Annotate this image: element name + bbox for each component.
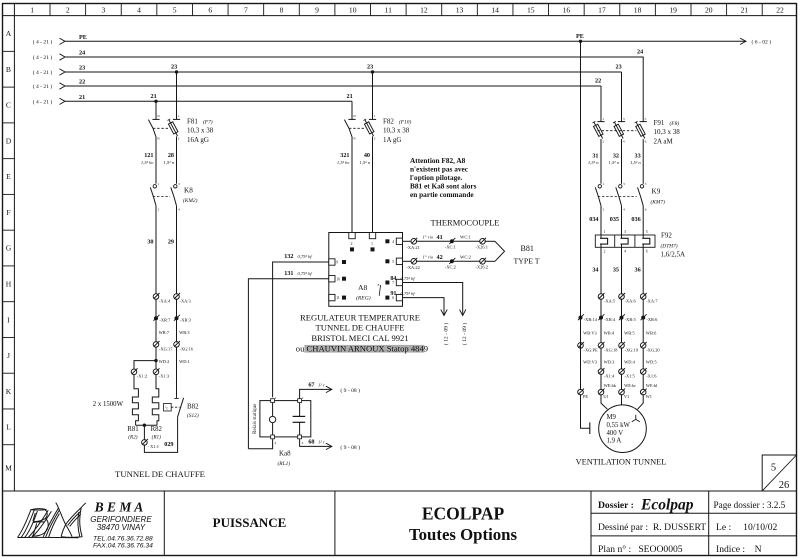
svg-text:THERMOCOUPLE: THERMOCOUPLE — [431, 217, 500, 227]
motor M9 — [599, 405, 647, 453]
svg-text:-XR:14: -XR:14 — [584, 317, 598, 322]
svg-text:-XR:6: -XR:6 — [646, 317, 658, 322]
svg-text:N: N — [353, 114, 356, 118]
svg-text:WC:2: WC:2 — [460, 255, 472, 260]
svg-text:-X1:6: -X1:6 — [646, 374, 657, 379]
svg-text:1,5² bc: 1,5² bc — [337, 160, 350, 166]
svg-text:3: 3 — [623, 117, 625, 121]
svg-text:034: 034 — [589, 216, 598, 223]
svg-text:4: 4 — [623, 140, 625, 144]
svg-text:1° rio: 1° rio — [423, 235, 434, 240]
svg-text:8: 8 — [378, 283, 380, 287]
svg-text:PE: PE — [79, 34, 87, 41]
svg-text:5: 5 — [645, 117, 647, 121]
svg-text:2: 2 — [602, 140, 604, 144]
svg-text:28: 28 — [168, 152, 174, 159]
svg-text:-X1:2: -X1:2 — [137, 374, 147, 379]
wire 42 — [403, 260, 411, 262]
terminal -XG:16 — [174, 342, 180, 348]
node 23 tap F81 — [175, 70, 178, 73]
svg-text:(F8): (F8) — [670, 120, 680, 127]
svg-text:VENTILATION TUNNEL: VENTILATION TUNNEL — [576, 457, 667, 466]
terminal -X1:2 — [131, 369, 137, 375]
wire 121 — [155, 140, 157, 184]
wire PE drop — [580, 41, 582, 389]
svg-text:1,5² bc: 1,5² bc — [141, 160, 154, 166]
svg-text:0,55 kW: 0,55 kW — [607, 422, 631, 429]
svg-text:2: 2 — [302, 396, 304, 400]
svg-text:°c: °c — [165, 406, 169, 410]
svg-text:1: 1 — [604, 230, 606, 234]
svg-text:2 x 1500W: 2 x 1500W — [93, 401, 124, 408]
svg-text:1° rio: 1° rio — [423, 255, 434, 260]
wire 40 — [372, 140, 374, 233]
node -XC:1 — [454, 240, 480, 242]
svg-text:9: 9 — [315, 6, 319, 15]
svg-text:6: 6 — [645, 140, 647, 144]
node -XR:14 — [579, 316, 583, 320]
wire 29 — [176, 208, 178, 295]
svg-text:10: 10 — [349, 6, 357, 15]
svg-text:22: 22 — [776, 6, 784, 15]
svg-text:WR:7: WR:7 — [159, 330, 170, 335]
node -XR:6 — [641, 316, 645, 320]
wire 034 — [600, 208, 602, 236]
svg-text:TUNNEL DE CHAUFFE: TUNNEL DE CHAUFFE — [115, 469, 205, 479]
terminal -X1:4 — [598, 369, 604, 375]
svg-text:N: N — [157, 114, 160, 118]
svg-text:24: 24 — [637, 49, 643, 56]
svg-text:1² r: 1² r — [318, 440, 325, 445]
svg-text:2: 2 — [351, 242, 353, 246]
svg-text:D: D — [6, 136, 12, 145]
svg-text:ECOLPAP: ECOLPAP — [422, 504, 505, 524]
svg-text:-XR:5: -XR:5 — [625, 317, 637, 322]
terminal -XA:7 — [640, 294, 646, 300]
terminal -XA:4 — [153, 294, 159, 300]
svg-text:23: 23 — [171, 64, 177, 71]
svg-text:-XR:3: -XR:3 — [180, 318, 192, 323]
svg-text:24: 24 — [79, 50, 85, 57]
wire 036 — [642, 208, 644, 236]
svg-text:WD:V3: WD:V3 — [583, 359, 598, 364]
svg-text:WB:5: WB:5 — [624, 331, 635, 336]
svg-text:91: 91 — [390, 290, 396, 297]
node -XR:4 — [599, 316, 603, 320]
svg-text:1,5² n: 1,5² n — [588, 160, 599, 166]
svg-text:K: K — [6, 387, 12, 396]
svg-text:( 4 - 21 ): ( 4 - 21 ) — [33, 83, 53, 90]
terminal V1 — [619, 389, 625, 395]
wire 84 — [403, 283, 463, 315]
svg-text:4: 4 — [624, 250, 626, 254]
svg-text:21: 21 — [79, 94, 85, 101]
svg-text:(REG): (REG) — [356, 295, 371, 302]
svg-text:PUISSANCE: PUISSANCE — [213, 515, 287, 530]
terminal W1 — [640, 389, 646, 395]
svg-text:16: 16 — [563, 6, 571, 15]
svg-text:6: 6 — [646, 250, 648, 254]
svg-text:Dossier :: Dossier : — [598, 500, 634, 511]
svg-text:1: 1 — [158, 182, 160, 186]
terminal -XG:18 — [598, 343, 604, 349]
svg-text:(DTH7): (DTH7) — [661, 242, 678, 249]
svg-text:4: 4 — [623, 208, 625, 212]
svg-text:-XA:7: -XA:7 — [646, 299, 658, 304]
svg-text:Toutes Options: Toutes Options — [409, 525, 517, 544]
svg-text:B: B — [6, 65, 11, 74]
svg-text:- X1:1: - X1:1 — [148, 444, 159, 449]
svg-text:-XG:16: -XG:16 — [180, 347, 194, 352]
svg-text:11: 11 — [336, 296, 340, 300]
svg-text:Ka8: Ka8 — [279, 449, 291, 457]
svg-text:10: 10 — [336, 277, 340, 281]
svg-text:8: 8 — [280, 6, 284, 15]
fuse-switch F81 F7 — [155, 101, 157, 115]
svg-text:2: 2 — [178, 137, 180, 141]
wire WD:2 — [155, 347, 157, 370]
svg-text:-X26:1: -X26:1 — [476, 244, 488, 249]
wire 131 — [248, 279, 328, 449]
wire 22 bus — [60, 83, 66, 89]
svg-text:WB:6: WB:6 — [646, 331, 657, 336]
svg-text:N: N — [157, 137, 160, 141]
wire 30 — [155, 208, 157, 295]
svg-text:5: 5 — [771, 463, 776, 474]
terminal -XG:20 — [640, 343, 646, 349]
svg-text:( 12 - 09 ): ( 12 - 09 ) — [443, 323, 450, 346]
svg-text:31: 31 — [592, 153, 598, 160]
svg-text:40: 40 — [364, 152, 370, 159]
svg-text:-XA:4: -XA:4 — [159, 299, 171, 304]
svg-text:F91: F91 — [654, 119, 665, 127]
svg-text:7: 7 — [244, 6, 248, 15]
terminal -XA:5 — [598, 294, 604, 300]
svg-text:M9: M9 — [607, 414, 617, 421]
terminal -X1:5 — [619, 369, 625, 375]
wire 35 — [621, 247, 623, 294]
wire PE to motor — [581, 394, 590, 428]
svg-text:17: 17 — [598, 6, 606, 15]
svg-text:(KM7): (KM7) — [651, 198, 666, 205]
svg-text:23: 23 — [79, 65, 85, 72]
svg-text:400 V: 400 V — [607, 430, 624, 437]
svg-text:1: 1 — [178, 114, 180, 118]
fuse-switch F91 (F8) — [597, 121, 604, 123]
svg-text:WE:br: WE:br — [624, 383, 636, 388]
wire 28 — [176, 140, 178, 184]
svg-text:R81: R81 — [127, 426, 138, 433]
wire 31 — [600, 144, 602, 184]
svg-text:11: 11 — [385, 6, 393, 15]
node R81-R82 junction — [136, 424, 157, 426]
svg-text:2: 2 — [374, 137, 376, 141]
svg-text:W1: W1 — [646, 394, 652, 399]
svg-text:WE:bl: WE:bl — [646, 383, 658, 388]
svg-text:3: 3 — [102, 6, 106, 15]
svg-text:(R2): (R2) — [128, 434, 137, 441]
svg-text:1: 1 — [30, 6, 34, 15]
svg-text:TUNNEL DE CHAUFFE: TUNNEL DE CHAUFFE — [316, 323, 405, 333]
svg-text:WD:5: WD:5 — [646, 359, 658, 364]
svg-text:-X1:5: -X1:5 — [625, 374, 636, 379]
svg-text:5: 5 — [173, 6, 177, 15]
wire Ka8 bottom link — [248, 439, 272, 449]
svg-text:121: 121 — [144, 152, 153, 159]
svg-text:2: 2 — [158, 208, 160, 212]
terminal -X26:2 — [480, 259, 486, 265]
terminal -X26:1 — [480, 239, 486, 245]
wire 33 — [642, 144, 644, 184]
svg-text:1,5² n: 1,5² n — [608, 160, 619, 166]
svg-text:-XC:2: -XC:2 — [445, 264, 456, 269]
svg-text:L: L — [6, 423, 11, 432]
svg-text:1,5² n: 1,5² n — [163, 160, 174, 166]
svg-text:( 4 - 21 ): ( 4 - 21 ) — [33, 39, 53, 46]
svg-text:WE:bk: WE:bk — [604, 383, 617, 388]
wire 23 drop — [621, 72, 623, 119]
fuse-switch F82 F10 — [351, 101, 353, 115]
svg-text:036: 036 — [631, 216, 640, 223]
svg-text:( 9 - 08 ): ( 9 - 08 ) — [340, 387, 360, 394]
thermocouple B81 TYPE T — [495, 241, 505, 261]
thermal relay F92 (DTH7) — [595, 235, 655, 247]
svg-text:B82: B82 — [187, 402, 199, 410]
svg-text:-X26:2: -X26:2 — [476, 264, 488, 269]
svg-text:12: 12 — [420, 6, 428, 15]
node PE tap — [579, 40, 582, 43]
svg-text:WB:4: WB:4 — [604, 331, 615, 336]
svg-text:26: 26 — [779, 480, 790, 491]
svg-text:32: 32 — [613, 153, 619, 160]
svg-text:1: 1 — [371, 242, 373, 246]
wire PE bus — [60, 38, 66, 44]
svg-text:REGULATEUR TEMPERATURE: REGULATEUR TEMPERATURE — [300, 312, 420, 322]
wire 029 — [144, 417, 177, 452]
svg-text:Plan n° : SEOO0005: Plan n° : SEOO0005 — [598, 544, 683, 555]
svg-text:B E M A: B E M A — [94, 500, 144, 515]
svg-text:C: C — [6, 101, 11, 110]
terminal PE — [578, 389, 584, 395]
svg-text:5: 5 — [392, 260, 394, 264]
svg-text:Dessiné par : R. DUSSERT: Dessiné par : R. DUSSERT — [598, 522, 706, 533]
svg-text:3: 3 — [302, 441, 304, 445]
svg-text:84: 84 — [390, 275, 396, 282]
svg-text:0,75² bf: 0,75² bf — [298, 271, 313, 277]
wire 41 — [403, 240, 411, 242]
svg-text:20: 20 — [705, 6, 713, 15]
svg-text:(KM2): (KM2) — [183, 197, 198, 204]
svg-text:21: 21 — [347, 93, 353, 100]
svg-text:321: 321 — [340, 152, 349, 159]
node -XC:2 — [454, 260, 480, 262]
svg-text:(F10): (F10) — [399, 118, 411, 125]
svg-text:5: 5 — [645, 182, 647, 186]
svg-text:PE: PE — [583, 394, 588, 399]
svg-text:-XA:21: -XA:21 — [406, 245, 419, 250]
svg-text:WR:3: WR:3 — [179, 330, 190, 335]
svg-text:67: 67 — [308, 382, 314, 389]
svg-text:21: 21 — [741, 6, 749, 15]
svg-text:16A gG: 16A gG — [187, 136, 209, 144]
svg-text:-XC:1: -XC:1 — [445, 244, 456, 249]
terminal -X1:1 — [143, 425, 145, 440]
svg-text:2: 2 — [604, 250, 606, 254]
terminal -XA:6 — [619, 294, 625, 300]
svg-text:29: 29 — [168, 239, 174, 246]
terminal -XG:19 — [619, 343, 625, 349]
svg-text:F81: F81 — [187, 117, 198, 125]
svg-text:-XG:19: -XG:19 — [625, 347, 639, 352]
svg-text:FAX.04.76.36.76.34: FAX.04.76.36.76.34 — [93, 542, 153, 549]
svg-text:H: H — [6, 280, 12, 289]
svg-text:41: 41 — [437, 234, 443, 241]
svg-text:23: 23 — [367, 64, 373, 71]
svg-text:1,5² n: 1,5² n — [359, 160, 370, 166]
svg-text:10,3 x 38: 10,3 x 38 — [654, 128, 681, 136]
svg-text:-X1:4: -X1:4 — [604, 374, 615, 379]
svg-text:35: 35 — [613, 266, 619, 273]
svg-text:-XG:17: -XG:17 — [159, 347, 173, 352]
svg-text:-XA:6: -XA:6 — [625, 299, 637, 304]
svg-text:( 4 - 21 ): ( 4 - 21 ) — [33, 54, 53, 61]
terminal -XA:21 — [411, 239, 417, 245]
terminal U1 — [598, 389, 604, 395]
svg-text:9: 9 — [336, 261, 338, 265]
svg-text:-XG:18: -XG:18 — [604, 347, 618, 352]
svg-text:Le : 10/10/02: Le : 10/10/02 — [716, 522, 777, 533]
svg-text:13: 13 — [456, 6, 464, 15]
svg-text:-XR:7: -XR:7 — [159, 318, 171, 323]
svg-text:6: 6 — [645, 208, 647, 212]
node -XR:5 — [620, 316, 624, 320]
svg-text:4: 4 — [392, 240, 394, 244]
svg-text:1: 1 — [275, 396, 277, 400]
svg-text:PE: PE — [576, 33, 584, 40]
svg-text:19: 19 — [669, 6, 677, 15]
svg-text:U1: U1 — [603, 394, 608, 399]
node WD:2 split — [154, 359, 157, 362]
wire 21 bus — [60, 98, 66, 104]
svg-text:A: A — [6, 29, 12, 38]
svg-text:2A aM: 2A aM — [654, 138, 674, 146]
svg-text:23: 23 — [616, 64, 622, 71]
wire 36 — [642, 247, 644, 294]
svg-text:(RL1): (RL1) — [278, 460, 291, 467]
svg-text:A8: A8 — [358, 283, 367, 292]
svg-text:J: J — [7, 351, 10, 360]
terminal -X1:6 — [640, 369, 646, 375]
svg-text:3: 3 — [623, 182, 625, 186]
svg-text:WC:1: WC:1 — [460, 235, 472, 240]
svg-text:1A gG: 1A gG — [383, 136, 401, 144]
regulator A8 (REG) — [329, 233, 403, 307]
svg-text:WB:V3: WB:V3 — [583, 331, 597, 336]
wire 22 drop — [600, 86, 602, 119]
svg-text:68: 68 — [308, 439, 314, 446]
wire 23 bus — [60, 69, 66, 75]
svg-text:( 9 - 08 ): ( 9 - 08 ) — [340, 444, 360, 451]
thermal switch B82 (S12) — [176, 397, 178, 399]
svg-text:K8: K8 — [184, 187, 193, 195]
terminal -XG:17 — [153, 342, 159, 348]
resistor R82 (R1) — [152, 374, 159, 425]
svg-text:0,75² bf: 0,75² bf — [298, 254, 313, 260]
svg-text:3: 3 — [624, 230, 626, 234]
svg-text:30: 30 — [147, 239, 153, 246]
svg-text:4: 4 — [178, 208, 180, 212]
svg-text:K9: K9 — [652, 187, 661, 195]
page number box 5/26 — [762, 455, 796, 491]
svg-text:029: 029 — [164, 441, 173, 448]
svg-text:035: 035 — [610, 216, 619, 223]
wire WR:3 — [176, 299, 178, 343]
wire 91 — [403, 298, 445, 315]
svg-text:E: E — [6, 172, 11, 181]
wire 68 — [300, 439, 331, 446]
svg-text:33: 33 — [635, 153, 641, 160]
terminal -XG:PE — [578, 343, 584, 349]
svg-text:(R1): (R1) — [152, 434, 161, 441]
svg-text:I: I — [7, 315, 10, 324]
relay Ka8 (RL1) — [260, 401, 311, 437]
svg-text:1: 1 — [602, 117, 604, 121]
svg-text:42: 42 — [437, 254, 443, 261]
wire 24 bus — [60, 54, 66, 60]
svg-text:Indice : N: Indice : N — [716, 544, 762, 555]
node 21 tap F81 — [154, 100, 157, 103]
svg-text:N: N — [353, 137, 356, 141]
svg-text:-XA:3: -XA:3 — [180, 299, 192, 304]
wire 035 — [621, 208, 623, 236]
terminal -X1:3 — [153, 369, 159, 375]
svg-text:4: 4 — [275, 441, 277, 445]
svg-text:3: 3 — [178, 182, 180, 186]
svg-text:WD:4: WD:4 — [624, 359, 636, 364]
svg-text:21: 21 — [151, 93, 157, 100]
svg-text:34: 34 — [592, 266, 598, 273]
svg-text:ou CHAUVIN ARNOUX Statop 4849: ou CHAUVIN ARNOUX Statop 4849 — [296, 344, 428, 354]
svg-text:WD:1: WD:1 — [179, 359, 190, 364]
node 23 tap F82 — [371, 70, 374, 73]
wire 24 drop — [642, 57, 644, 119]
svg-text:(S12): (S12) — [187, 412, 199, 419]
svg-text:WD:3: WD:3 — [604, 359, 616, 364]
logo BEMA — [18, 503, 86, 538]
svg-text:en partie commande: en partie commande — [410, 190, 474, 199]
svg-text:F: F — [6, 208, 10, 217]
svg-text:4: 4 — [137, 6, 141, 15]
svg-text:-XG:20: -XG:20 — [646, 347, 660, 352]
svg-text:1: 1 — [603, 182, 605, 186]
svg-text:WD:2: WD:2 — [159, 359, 170, 364]
svg-text:F82: F82 — [383, 117, 394, 125]
svg-text:Ecolpap: Ecolpap — [640, 496, 694, 513]
svg-text:BRISTOL MECI CAL 9921: BRISTOL MECI CAL 9921 — [311, 333, 408, 343]
svg-text:-XG:PE: -XG:PE — [584, 347, 598, 352]
svg-text:22: 22 — [595, 78, 601, 85]
svg-text:-X1:3: -X1:3 — [159, 374, 170, 379]
svg-text:B81: B81 — [521, 244, 534, 253]
node -XR:3 — [175, 316, 179, 320]
svg-text:36: 36 — [635, 266, 641, 273]
svg-text:1,5² n: 1,5² n — [630, 160, 641, 166]
svg-text:Relais statique: Relais statique — [252, 403, 258, 434]
terminal -XA:3 — [174, 294, 180, 300]
svg-text:131: 131 — [284, 270, 293, 277]
svg-text:15: 15 — [527, 6, 535, 15]
svg-text:F92: F92 — [661, 232, 672, 240]
